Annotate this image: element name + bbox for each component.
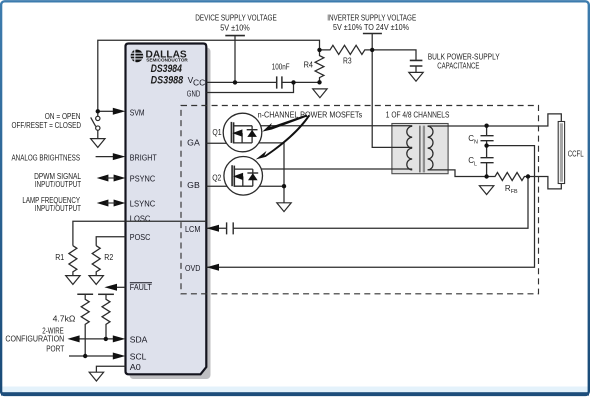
- IC U1 drop shadow: [130, 48, 211, 380]
- pointer arrow 2 to Q2: [256, 115, 310, 160]
- switch S1 lever: [91, 117, 96, 126]
- ground under bulk capacitance: [409, 72, 423, 81]
- svg-text:BRIGHT: BRIGHT: [130, 152, 157, 162]
- node B: CN/CL divider midpoint: [484, 143, 488, 147]
- pointer arrow 1 to Q1: [262, 115, 307, 132]
- junction: SDA pull-up: [104, 337, 108, 341]
- junction: R3/R4 divider tap: [317, 48, 321, 52]
- pull-up resistor 4.7k left: [77, 293, 93, 295]
- capacitor CN: [481, 126, 494, 146]
- resistor RFB: [487, 173, 528, 181]
- svg-text:5V ±10%: 5V ±10%: [220, 24, 250, 33]
- transistor Q1 n-channel MOSFET: [223, 113, 262, 152]
- transformer T1 core box: [392, 124, 448, 174]
- svg-text:LOSC: LOSC: [130, 214, 151, 224]
- svg-text:FB: FB: [511, 189, 518, 195]
- wire device supply vertical to Vcc rail: [234, 36, 236, 83]
- capacitor CL: [481, 146, 494, 177]
- CCFL lamp tube: [558, 122, 564, 184]
- svg-text:PORT: PORT: [46, 344, 64, 353]
- resistor R3: [320, 45, 373, 54]
- junction: GND riser: [291, 80, 295, 84]
- wire SDA row: [79, 338, 113, 340]
- wire SVM node with switch: [98, 110, 113, 112]
- junction: SCL pull-up: [83, 354, 87, 358]
- svg-text:GB: GB: [187, 180, 200, 190]
- wire BRIGHT: [96, 156, 114, 158]
- svg-text:Q1: Q1: [212, 128, 222, 137]
- svg-text:GND: GND: [187, 89, 200, 99]
- svg-text:ANALOG BRIGHTNESS: ANALOG BRIGHTNESS: [12, 153, 81, 162]
- Dallas Semiconductor logo: [131, 50, 189, 87]
- ground under CL node: [479, 186, 493, 195]
- transformer secondary winding: [428, 126, 433, 170]
- wire GND pin to rail: [206, 82, 293, 92]
- double arrow LSYNC: [97, 200, 109, 207]
- node C: CL bottom / RFB left: [484, 174, 488, 178]
- wire POSC to R2: [96, 237, 125, 246]
- wire cap to R4 bottom: [282, 81, 320, 83]
- svg-text:INVERTER SUPPLY VOLTAGE: INVERTER SUPPLY VOLTAGE: [327, 14, 416, 23]
- svg-text:FAULT: FAULT: [130, 282, 152, 292]
- svg-text:SVM: SVM: [130, 108, 145, 118]
- ground under R2: [89, 276, 103, 285]
- page border frame: [2, 387, 588, 393]
- wire Q2 source to riser: [253, 185, 284, 187]
- wire Q1 source down to ground riser: [252, 143, 284, 203]
- junction: MOSFET source / ground: [282, 184, 286, 188]
- svg-text:n-CHANNEL POWER MOSFETs: n-CHANNEL POWER MOSFETs: [258, 111, 363, 120]
- capacitor LCM series: [227, 222, 234, 234]
- svg-text:INPUT/OUTPUT: INPUT/OUTPUT: [35, 204, 81, 213]
- transformer core lines: [419, 126, 421, 173]
- ground under MOSFET sources: [277, 203, 291, 212]
- capacitor bulk power-supply: [410, 60, 423, 66]
- wire SVM divider rail top: [98, 40, 320, 111]
- svg-text:DS3988: DS3988: [151, 74, 184, 86]
- wire GB pin to Q2 gate: [206, 185, 232, 187]
- arrow into BRIGHT: [113, 153, 126, 160]
- svg-text:POSC: POSC: [130, 232, 151, 242]
- junction: SVM node: [96, 109, 100, 113]
- ground under R4: [313, 89, 327, 98]
- svg-text:SDA: SDA: [130, 334, 148, 344]
- wire GA pin to Q1 gate: [206, 142, 231, 144]
- svg-text:R1: R1: [55, 253, 64, 262]
- node: INVERTER SUPPLY terminal bar: [363, 33, 382, 35]
- svg-text:CC: CC: [193, 77, 205, 87]
- wire Q1 drain to transformer primary top: [252, 125, 412, 127]
- svg-text:SEMICONDUCTOR: SEMICONDUCTOR: [146, 58, 188, 63]
- svg-text:CONFIGURATION: CONFIGURATION: [5, 335, 64, 344]
- svg-text:GA: GA: [187, 138, 200, 148]
- wire inverter node to bulk cap: [372, 50, 416, 60]
- wire secondary top to CN and lamp: [428, 114, 562, 126]
- wire RFB node to lamp bottom: [528, 177, 561, 189]
- svg-text:A0: A0: [130, 362, 141, 372]
- wire A0 to ground: [96, 366, 125, 372]
- transformer primary winding: [407, 126, 412, 170]
- IC U1 body DS3984/DS3988: [126, 44, 207, 375]
- arrow into OVD: [207, 264, 220, 271]
- svg-text:CAPACITANCE: CAPACITANCE: [437, 61, 479, 70]
- svg-text:5V ±10% TO 24V ±10%: 5V ±10% TO 24V ±10%: [333, 23, 409, 32]
- svg-text:L: L: [474, 161, 477, 167]
- wire RFB node down to LCM line: [233, 177, 528, 229]
- IC pin labels right side: [185, 75, 205, 273]
- ground under switch: [91, 139, 105, 148]
- junction: R4 bottom / ground rail: [317, 80, 321, 84]
- arrow out of FAULT: [104, 284, 117, 291]
- wire CN/CL node to OVD riser: [206, 146, 534, 268]
- svg-text:R4: R4: [304, 60, 314, 69]
- pull-up resistor 4.7k right: [98, 293, 114, 295]
- svg-text:Q2: Q2: [212, 174, 222, 183]
- junction: device supply / Vcc: [233, 80, 237, 84]
- arrow into SCL: [113, 353, 126, 360]
- wire FAULT stub: [117, 286, 126, 288]
- svg-text:100nF: 100nF: [272, 62, 290, 71]
- svg-text:R3: R3: [343, 57, 352, 66]
- wire inverter supply vertical: [371, 34, 373, 50]
- svg-text:BULK POWER-SUPPLY: BULK POWER-SUPPLY: [428, 52, 501, 61]
- node A: secondary high / CN top: [484, 124, 488, 128]
- svg-text:1 OF 4/8 CHANNELS: 1 OF 4/8 CHANNELS: [386, 110, 450, 119]
- svg-text:DS3984: DS3984: [151, 63, 182, 75]
- svg-text:ON = OPEN: ON = OPEN: [45, 112, 81, 121]
- resistor R4: [315, 50, 324, 82]
- wire SCL row: [69, 355, 113, 357]
- ground under A0: [89, 372, 103, 381]
- svg-text:N: N: [474, 139, 478, 145]
- wire inverter supply to transformer center tap: [372, 50, 412, 147]
- switch S1 contacts: [96, 116, 100, 120]
- dashed box: inverter module boundary: [181, 106, 539, 294]
- capacitor 100nF: [277, 76, 282, 88]
- wire Q2 drain to transformer primary bottom: [253, 168, 412, 170]
- svg-text:OFF/RESET = CLOSED: OFF/RESET = CLOSED: [12, 121, 82, 130]
- double arrow PSYNC: [97, 175, 109, 182]
- svg-text:PSYNC: PSYNC: [130, 173, 155, 183]
- IC pin labels left side: [130, 108, 157, 372]
- junction node dots: [83, 48, 530, 358]
- node: DEVICE SUPPLY terminal bar: [225, 35, 245, 37]
- arrow into SVM: [113, 108, 126, 115]
- junction: inverter supply node: [370, 48, 374, 52]
- svg-text:SCL: SCL: [130, 351, 147, 361]
- ground under R1: [66, 276, 80, 285]
- transistor Q2 n-channel MOSFET: [224, 157, 263, 196]
- double arrow SDA: [67, 335, 79, 342]
- svg-text:R2: R2: [104, 253, 113, 262]
- svg-text:LCM: LCM: [185, 224, 200, 234]
- wire LOSC to R1: [73, 221, 206, 245]
- svg-text:OVD: OVD: [185, 263, 200, 273]
- svg-text:INPUT/OUTPUT: INPUT/OUTPUT: [35, 180, 81, 189]
- resistor R2: [92, 246, 100, 276]
- svg-text:CCFL: CCFL: [568, 149, 584, 158]
- wire secondary bottom to CL bottom node: [428, 170, 487, 177]
- svg-text:LSYNC: LSYNC: [130, 198, 155, 208]
- svg-text:DEVICE SUPPLY VOLTAGE: DEVICE SUPPLY VOLTAGE: [195, 14, 277, 23]
- svg-text:4.7kΩ: 4.7kΩ: [53, 315, 76, 324]
- resistor R1: [69, 246, 77, 276]
- node D: RFB right / lamp return: [526, 174, 530, 178]
- arrow into LCM: [207, 225, 220, 232]
- wire Vcc row from IC to cap: [206, 81, 276, 83]
- signal arrows: [67, 108, 310, 360]
